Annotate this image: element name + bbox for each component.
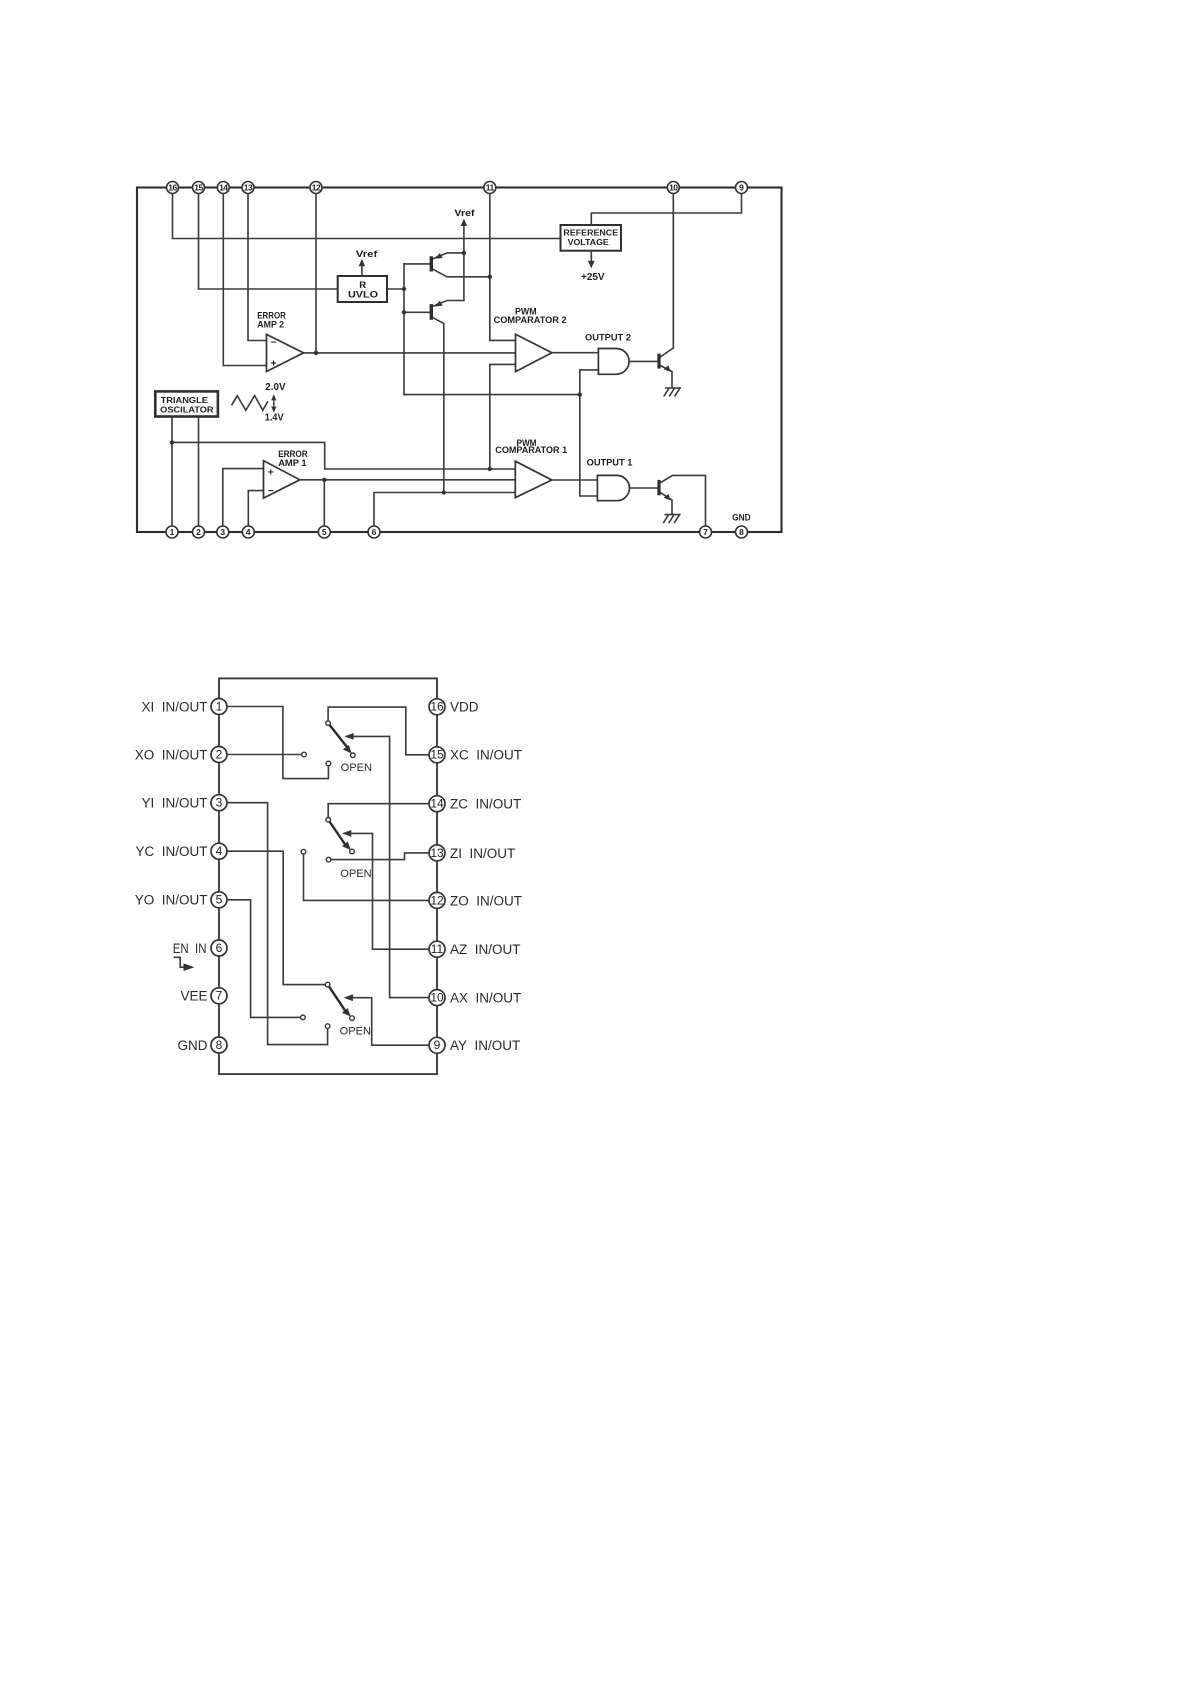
svg-text:4: 4 (246, 527, 251, 537)
svg-text:YO IN/OUT: YO IN/OUT (135, 893, 208, 908)
wire pin6 to PWM comparator 1 bottom input (374, 493, 515, 527)
wire PWM comparator 2 bottom input from triangle net (490, 364, 516, 469)
node triangle net comparator 1 junction (488, 467, 492, 471)
svg-text:YC IN/OUT: YC IN/OUT (135, 844, 207, 859)
svg-text:16: 16 (168, 182, 177, 192)
wire collector Q1 to pin7 (661, 475, 706, 526)
pin 6 (368, 526, 380, 538)
wire pin15 XC to switch X common (328, 707, 429, 755)
node pin5 error amp 1 output junction (322, 478, 326, 482)
svg-text:OPEN: OPEN (340, 868, 371, 880)
svg-text:Vref: Vref (356, 249, 378, 260)
pin 12 ZO (429, 892, 445, 908)
switch Z open contact (326, 857, 331, 862)
ground output 1 (664, 515, 680, 523)
svg-text:Vref: Vref (454, 208, 475, 219)
svg-text:UVLO: UVLO (348, 290, 378, 301)
pin 16 VDD (429, 699, 445, 715)
pin 7 (700, 526, 712, 538)
svg-text:+25V: +25V (581, 272, 605, 283)
pin 14 ZC (429, 796, 445, 812)
wire base of mirror transistor Q3 (404, 263, 430, 265)
wire PWM comparator 1 output to AND gate 1 (552, 479, 598, 481)
svg-text:YI IN/OUT: YI IN/OUT (141, 796, 207, 811)
svg-text:AY IN/OUT: AY IN/OUT (450, 1038, 520, 1053)
pin 4 (242, 526, 254, 538)
reference voltage box (561, 225, 622, 251)
comparator U1 (515, 461, 552, 497)
IC package outline (219, 678, 437, 1074)
wire pin13 ZI to switch Z open contact (331, 853, 429, 860)
pin 6 EN (211, 940, 227, 956)
svg-text:2: 2 (196, 527, 201, 537)
switch X blade (329, 725, 347, 748)
comparator U2 (516, 334, 552, 371)
svg-text:GND: GND (732, 512, 751, 523)
svg-text:3: 3 (220, 527, 225, 537)
svg-text:2.0V: 2.0V (265, 382, 286, 393)
wire pin16 to reference voltage box (173, 194, 561, 239)
svg-text:14: 14 (430, 797, 444, 811)
pin 13 (242, 182, 254, 194)
svg-text:COMPARATOR 2: COMPARATOR 2 (494, 315, 567, 326)
pin 11 (484, 182, 496, 194)
arrow switch Y control (344, 994, 353, 1001)
wire Vref rail vertical (463, 223, 465, 301)
wire pin1 to triangle oscillator (171, 417, 173, 527)
pin 3 (217, 526, 229, 538)
svg-text:ZI IN/OUT: ZI IN/OUT (450, 846, 515, 861)
wire switch Z control to pin11 AZ (350, 833, 430, 949)
svg-text:OUTPUT 2: OUTPUT 2 (585, 333, 631, 344)
arrow UVLO Vref (361, 263, 363, 275)
switch Z ZO contact (301, 849, 306, 854)
wire pin3 YI to switch Y open contact (227, 803, 328, 1045)
node pin6 Q4 collector junction (442, 490, 446, 494)
wire pin5 YO to contact (227, 900, 301, 1018)
pin 7 VEE (211, 988, 227, 1004)
svg-text:3: 3 (216, 796, 223, 810)
svg-text:−: − (271, 337, 277, 348)
svg-text:8: 8 (216, 1038, 223, 1052)
R UVLO box (338, 276, 387, 302)
pin 15 (193, 182, 205, 194)
svg-text:OPEN: OPEN (341, 762, 372, 774)
svg-text:10: 10 (669, 182, 678, 192)
pin 1 (166, 526, 178, 538)
svg-text:12: 12 (312, 182, 321, 192)
svg-text:ZO IN/OUT: ZO IN/OUT (450, 893, 522, 908)
wire emitter Q1 to ground (661, 493, 673, 514)
wire AND gate 1 output to transistor Q1 base (629, 487, 657, 489)
wire base of mirror transistor Q4 (404, 311, 430, 313)
svg-text:5: 5 (216, 893, 223, 907)
svg-text:2: 2 (216, 747, 223, 761)
switch Y YO contact (301, 1015, 306, 1020)
pin 12 (310, 182, 322, 194)
wire UVLO output to junction (387, 288, 404, 290)
wire collector Q3 to pin11 net (433, 269, 490, 277)
switch Y blade (329, 986, 345, 1010)
svg-text:15: 15 (430, 748, 444, 762)
wire pin12 to error amp 2 output (315, 194, 317, 353)
pin 15 XC (429, 747, 445, 763)
svg-text:XI IN/OUT: XI IN/OUT (141, 699, 207, 714)
pin 2 XO (211, 747, 227, 763)
pin 5 YO (211, 892, 227, 908)
wire pin14 to error amp 2 + input (223, 194, 266, 366)
AND gate 2 (598, 349, 629, 375)
wire AND gate 2 output to transistor Q2 base (629, 360, 657, 362)
svg-text:7: 7 (703, 527, 708, 537)
svg-text:9: 9 (434, 1038, 441, 1052)
ground output 2 (664, 388, 680, 396)
svg-text:6: 6 (372, 527, 377, 537)
svg-text:1: 1 (216, 699, 223, 713)
svg-text:GND: GND (178, 1038, 208, 1053)
wire pin3 to error amp 1 + input (223, 469, 264, 526)
wire pin2 XO to contact (227, 754, 302, 756)
pin 8 (736, 526, 748, 538)
switch Z blade (330, 822, 346, 845)
enable input edge symbol (175, 957, 184, 967)
pin 3 YI (211, 795, 227, 811)
wire pin14 ZC to switch Z common (328, 804, 429, 818)
wire pin15 to R UVLO input (199, 194, 338, 290)
pin 10 (667, 182, 679, 194)
transistor Q3 emitter arrow (435, 253, 443, 259)
svg-text:16: 16 (430, 700, 444, 714)
wire switch X control to pin10 AX (352, 736, 430, 997)
svg-text:VOLTAGE: VOLTAGE (568, 237, 609, 247)
svg-text:−: − (268, 486, 274, 497)
node UVLO output junction (402, 287, 406, 291)
pin 10 AX (429, 990, 445, 1006)
IC boundary box (137, 188, 782, 533)
switch X common contact (326, 721, 331, 726)
switch Y throw contact (350, 1016, 355, 1021)
svg-text:OSCILATOR: OSCILATOR (160, 405, 214, 415)
wire pin4 to error amp 1 - input (248, 491, 263, 526)
wire pin9 to reference voltage box top (591, 194, 741, 226)
node triangle oscillator pin1 junction (170, 440, 174, 444)
svg-text:13: 13 (244, 182, 253, 192)
switch Y common contact (325, 982, 330, 987)
svg-text:8: 8 (739, 527, 744, 537)
switch Y open contact (325, 1024, 330, 1029)
switch Z common contact (326, 818, 331, 823)
svg-text:11: 11 (486, 182, 495, 192)
pin 16 (167, 182, 179, 194)
transistor Q2 emitter arrow (664, 365, 671, 372)
pin 8 GND (211, 1037, 227, 1053)
wire pin2 to triangle oscillator (198, 417, 200, 527)
wire pin1 XI to switch X open contact (227, 707, 328, 779)
svg-text:AX IN/OUT: AX IN/OUT (450, 991, 521, 1006)
node Q4 base junction (402, 310, 406, 314)
svg-text:7: 7 (216, 989, 223, 1003)
wire pin12 ZO to contact (304, 854, 430, 900)
wire pin5 to error amp 1 output (323, 480, 325, 526)
wire emitter Q2 to ground (661, 366, 673, 387)
switch X throw contact (351, 753, 356, 758)
svg-text:VDD: VDD (450, 700, 479, 715)
svg-text:5: 5 (322, 527, 327, 537)
arrow switch Z control (342, 830, 351, 837)
wire pin13 to error amp 2 - input (248, 194, 267, 341)
wire switch Y control to pin9 AY (351, 998, 429, 1045)
wire enable branch to AND gate 2 (580, 370, 599, 395)
pin 13 ZI (429, 845, 445, 861)
wire enable branch to AND gate 1 (580, 395, 598, 496)
pin 1 XI (211, 699, 227, 715)
svg-text:COMPARATOR 1: COMPARATOR 1 (495, 445, 567, 456)
switch X open contact (326, 761, 331, 766)
svg-text:14: 14 (219, 182, 228, 192)
svg-text:4: 4 (216, 844, 223, 858)
wire emitter Q4 (433, 301, 464, 307)
op-amp error amp 2 (267, 334, 304, 371)
svg-text:AMP 1: AMP 1 (278, 458, 307, 469)
transistor Q2 base bar (657, 354, 660, 369)
wire collector Q4 down to pin6 net (433, 318, 444, 493)
svg-text:OPEN: OPEN (340, 1026, 371, 1038)
pin 9 AY (429, 1037, 445, 1053)
svg-text:+: + (268, 467, 274, 478)
svg-text:VEE: VEE (180, 989, 207, 1004)
pin 4 YC (211, 843, 227, 859)
svg-text:15: 15 (194, 182, 203, 192)
switch Z throw contact (350, 849, 355, 854)
AND gate 1 (597, 475, 629, 500)
arrow waveform amplitude (273, 399, 275, 409)
svg-text:1: 1 (170, 527, 175, 537)
svg-text:AMP 2: AMP 2 (257, 320, 284, 331)
wire triangle oscillator to comparators (172, 442, 515, 469)
svg-text:ZC IN/OUT: ZC IN/OUT (450, 797, 521, 812)
node Q3 collector pin11 junction (488, 275, 492, 279)
wire pin11 to PWM comparator 2 top input (490, 194, 516, 341)
arrow Vref rail up (461, 219, 467, 226)
pin 14 (217, 182, 229, 194)
arrow switch X control (344, 733, 353, 740)
node Vref emitter junction (462, 251, 466, 255)
wire pin10 to output transistor 2 collector (672, 194, 674, 349)
svg-text:EN IN: EN IN (173, 941, 207, 956)
triangle waveform symbol (232, 396, 268, 411)
pin 9 (736, 182, 748, 194)
transistor Q3 base bar (430, 256, 433, 271)
node enable line junction (578, 392, 582, 396)
svg-text:XC IN/OUT: XC IN/OUT (450, 748, 522, 763)
svg-text:13: 13 (430, 846, 444, 860)
svg-text:TRIANGLE: TRIANGLE (161, 395, 209, 405)
pin 5 (318, 526, 330, 538)
svg-text:OUTPUT 1: OUTPUT 1 (587, 457, 633, 468)
op-amp error amp 1 (264, 461, 300, 499)
transistor Q1 emitter arrow (664, 494, 671, 501)
wire UVLO enable line to gates (404, 394, 580, 396)
transistor Q4 base bar (430, 304, 433, 320)
pin 2 (193, 526, 205, 538)
svg-text:6: 6 (216, 941, 223, 955)
svg-text:9: 9 (739, 182, 744, 192)
node pin12 error amp 2 output junction (314, 351, 318, 355)
transistor Q4 emitter arrow (435, 301, 443, 307)
label triangle oscilator (155, 391, 218, 416)
wire junction vertical UVLO net (403, 264, 405, 395)
transistor Q1 base bar (657, 480, 660, 495)
wire collector Q2 (661, 348, 674, 357)
svg-text:10: 10 (430, 991, 444, 1005)
svg-text:+: + (271, 358, 277, 369)
switch X XO contact (302, 752, 307, 757)
arrow reference voltage output +25V (590, 251, 592, 262)
svg-text:12: 12 (430, 893, 444, 907)
svg-text:AZ IN/OUT: AZ IN/OUT (450, 942, 521, 957)
wire error amp 1 output to PWM comparator 1 (300, 479, 516, 481)
svg-text:1.4V: 1.4V (265, 412, 284, 423)
svg-text:XO IN/OUT: XO IN/OUT (135, 747, 208, 762)
wire emitter Q3 (433, 253, 464, 259)
wire PWM comparator 2 output to AND gate 2 (552, 352, 599, 354)
wire error amp 2 output to PWM comparator 2 (304, 352, 516, 354)
svg-text:11: 11 (431, 942, 444, 956)
wire pin4 YC to switch Y common (227, 851, 325, 984)
pin 11 AZ (429, 941, 445, 957)
